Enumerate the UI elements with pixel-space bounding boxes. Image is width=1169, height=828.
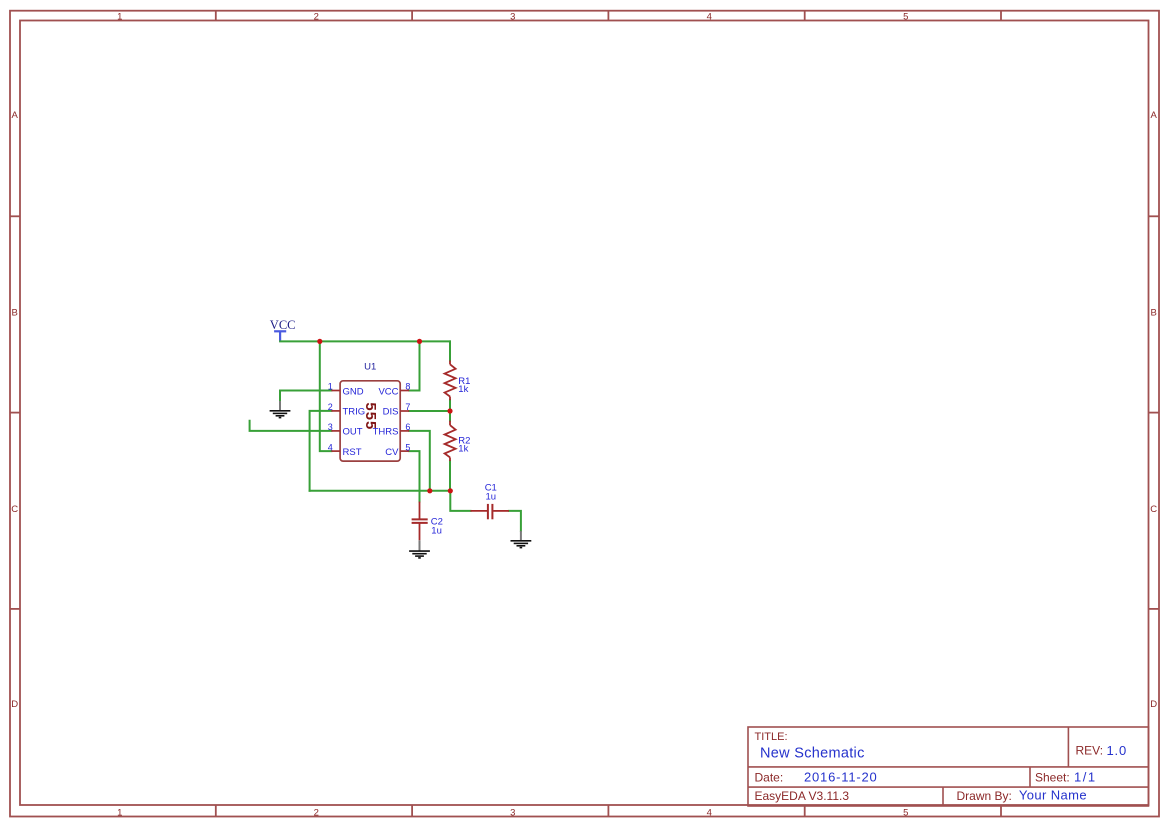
wire DIS pin7 to junction [409,410,450,412]
svg-text:THRS: THRS [373,427,399,438]
svg-text:CV: CV [385,447,399,458]
pin names [343,386,400,458]
wires (green) [250,341,521,531]
svg-text:2: 2 [328,402,333,412]
ground (C1) [511,531,532,548]
pin 3 stub [331,430,340,432]
junction DIS / R1 / R2 [447,408,452,413]
wire R1 bottom to DIS junction [449,400,451,411]
VCC power symbol [274,331,286,341]
svg-text:Drawn By:: Drawn By: [957,789,1012,803]
svg-text:1k: 1k [458,384,468,395]
svg-text:6: 6 [405,422,410,432]
junction dots [317,339,453,494]
svg-text:C: C [11,504,18,515]
wire junction to R2 top [449,411,451,421]
ground (pin 1) [270,401,291,418]
svg-text:VCC: VCC [378,386,398,397]
svg-text:DIS: DIS [383,407,399,418]
IC pin stubs [331,391,409,452]
svg-text:A: A [1151,110,1158,121]
svg-text:C: C [1150,504,1157,515]
svg-text:U1: U1 [364,361,376,372]
svg-text:REV:: REV: [1076,744,1104,758]
svg-text:2: 2 [314,11,319,22]
svg-text:1: 1 [328,382,333,392]
svg-text:TITLE:: TITLE: [755,731,788,743]
svg-text:Your Name: Your Name [1019,788,1087,803]
svg-text:B: B [1151,308,1157,319]
capacitor C1 (horizontal) [471,504,509,519]
svg-text:1: 1 [117,11,122,22]
pin 2 stub [331,410,340,412]
svg-text:EasyEDA V3.11.3: EasyEDA V3.11.3 [755,789,850,803]
svg-text:VCC: VCC [270,318,296,332]
svg-text:1.0: 1.0 [1107,743,1127,758]
svg-text:3: 3 [510,808,515,819]
wire OUT pin3 stub [250,421,332,431]
svg-text:TRIG: TRIG [343,407,366,418]
pin 6 stub [400,430,409,432]
wire GND pin1 to ground [280,391,331,401]
pin numbers [328,382,411,453]
svg-text:1: 1 [117,808,122,819]
svg-text:Sheet:: Sheet: [1035,770,1070,784]
capacitor C2 (vertical) [412,502,428,541]
wire TRIG pin2 loop [310,411,332,491]
svg-text:A: A [12,110,19,121]
wire bottom horizontal net [310,490,451,492]
svg-text:Date:: Date: [755,770,784,784]
pin 1 stub [331,390,340,392]
row ticks left [10,215,20,217]
svg-text:5: 5 [903,808,908,819]
svg-text:1u: 1u [486,491,497,502]
svg-text:4: 4 [707,11,712,22]
row ticks right [1149,215,1160,217]
wire C1 right to ground [509,511,521,531]
wire VCC to pin8 [409,341,419,390]
resistor R2 [445,421,456,461]
wire CV pin5 to C2 [409,451,419,502]
svg-text:1u: 1u [431,526,442,537]
svg-text:2: 2 [314,808,319,819]
column ticks bottom [215,805,217,817]
svg-text:5: 5 [903,11,908,22]
wire VCC to RST (pin4) [320,341,332,451]
svg-text:3: 3 [510,11,515,22]
pin 8 stub [400,390,409,392]
column ticks top [215,11,217,21]
svg-text:OUT: OUT [343,427,363,438]
pin 7 stub [400,410,409,412]
svg-text:1/1: 1/1 [1074,769,1097,784]
svg-text:3: 3 [328,422,333,432]
junction THRS on bottom net [427,488,432,493]
svg-text:5: 5 [405,442,410,452]
svg-text:2016-11-20: 2016-11-20 [804,769,878,784]
wire THRS pin6 to bottom net [409,431,430,491]
svg-text:New Schematic: New Schematic [760,745,865,761]
junction on VCC rail 2 [417,339,422,344]
wire bottom net to C1 [450,491,470,511]
svg-text:4: 4 [328,442,333,452]
svg-text:8: 8 [405,382,410,392]
ground (C2) [409,540,430,558]
svg-text:RST: RST [343,447,362,458]
svg-text:D: D [11,699,18,710]
wire rail to R1 top [449,341,451,360]
op-amp U1 body (555 IC) [340,381,400,461]
pin 4 stub [331,450,340,452]
svg-text:D: D [1150,699,1157,710]
pin 5 stub [400,450,409,452]
wire R2 bottom to lower junction [449,461,451,491]
svg-text:7: 7 [405,402,410,412]
svg-text:1k: 1k [458,444,468,455]
svg-text:GND: GND [343,386,364,397]
resistor R1 [445,361,456,401]
junction R2 / C1 on bottom net [448,488,453,493]
svg-text:4: 4 [707,808,712,819]
wire VCC rail horizontal [280,340,450,342]
svg-text:B: B [12,308,18,319]
junction on VCC rail 1 [317,339,322,344]
